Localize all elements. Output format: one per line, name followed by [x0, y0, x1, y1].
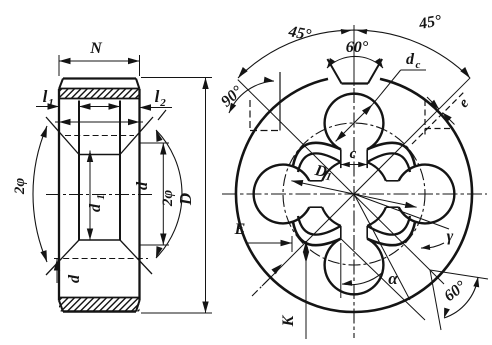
- svg-text:90°: 90°: [218, 82, 246, 110]
- svg-text:60°: 60°: [346, 39, 369, 56]
- dimension d bottom: [56, 259, 58, 283]
- 60-degree notch in rim: [342, 82, 369, 84]
- svg-text:l: l: [43, 87, 48, 106]
- thread major diameter dashed top: [65, 135, 134, 137]
- dimension c (land gap): [341, 164, 367, 166]
- wire : vertical centerline: [353, 25, 355, 86]
- thread crest arcs 4x: [322, 162, 341, 181]
- relief sickle upper-right land: [367, 143, 415, 166]
- land cutting face lines: [340, 149, 342, 168]
- wire : axis centerline: [46, 194, 153, 196]
- 60deg dimension arc top notch: [327, 56, 383, 68]
- 90deg dimension upper-left: [229, 81, 274, 113]
- angle gamma (rake) annotation: [354, 194, 449, 229]
- thin construction line to lower right: [354, 194, 410, 300]
- svg-text:α: α: [388, 269, 398, 288]
- diagonal thin lines 45deg: [238, 80, 444, 284]
- svg-text:c: c: [416, 59, 421, 71]
- svg-text:γ: γ: [447, 228, 454, 245]
- hatched bottom cap section: [59, 297, 140, 299]
- entry chamfer cone bottom + extensions: [46, 240, 79, 275]
- svg-text:l: l: [155, 87, 160, 106]
- relief sickle upper-left land: [293, 143, 341, 166]
- lower-left diagonal arrow + dash-dot extension: [271, 264, 282, 274]
- 60deg dimension lower-right: [430, 270, 488, 279]
- die outer circle: [236, 79, 472, 312]
- dimension N: [58, 55, 60, 76]
- chip holes 4x: [325, 94, 384, 150]
- 45deg dimension arcs over top: [238, 30, 470, 78]
- svg-text:c: c: [350, 146, 357, 162]
- svg-text:d: d: [66, 274, 83, 283]
- width arrows row: [55, 121, 143, 123]
- die body outline side view: [63, 77, 136, 79]
- svg-text:2φ: 2φ: [160, 190, 176, 208]
- relief sickle lower-left land: [293, 222, 341, 245]
- dimension d: [140, 142, 169, 144]
- angle alpha (relief) bottom: [340, 243, 342, 298]
- inner thread length arrows: [79, 106, 120, 108]
- svg-text:e: e: [456, 95, 472, 111]
- svg-text:45°: 45°: [417, 12, 444, 33]
- thread major diameter dashed bottom: [54, 258, 148, 260]
- svg-text:45°: 45°: [286, 23, 313, 44]
- svg-text:D: D: [176, 193, 195, 206]
- svg-text:1: 1: [325, 171, 333, 184]
- thread hole walls (section): [78, 101, 80, 241]
- wire : horizontal centerline: [222, 193, 487, 195]
- svg-text:60°: 60°: [441, 277, 470, 305]
- dimension D1: [291, 181, 416, 208]
- dimension E left: [291, 236, 293, 252]
- dimension D: [141, 77, 212, 79]
- svg-text:2φ: 2φ: [12, 178, 28, 196]
- svg-text:d: d: [406, 51, 415, 68]
- relief sickle lower-right land: [367, 222, 415, 245]
- svg-text:N: N: [89, 40, 103, 57]
- svg-text:E: E: [234, 221, 246, 238]
- svg-text:1: 1: [95, 194, 107, 200]
- dimension d1: [89, 151, 91, 241]
- angle 2phi right: [156, 130, 182, 258]
- screw hole square upper-left (dashed): [279, 72, 281, 131]
- svg-text:d: d: [87, 203, 104, 212]
- pitch circle dash-dot: [283, 123, 425, 265]
- svg-text:d: d: [134, 181, 151, 190]
- dimension K bottom: [305, 241, 307, 339]
- dimension dc with leader: [336, 105, 373, 142]
- angle 2phi left: [33, 126, 47, 262]
- screw hole square upper-right (dashed) + e offset: [424, 100, 426, 137]
- svg-text:K: K: [280, 314, 297, 327]
- hatched top cap section: [59, 88, 140, 90]
- entry chamfer cone top + extensions: [46, 117, 79, 155]
